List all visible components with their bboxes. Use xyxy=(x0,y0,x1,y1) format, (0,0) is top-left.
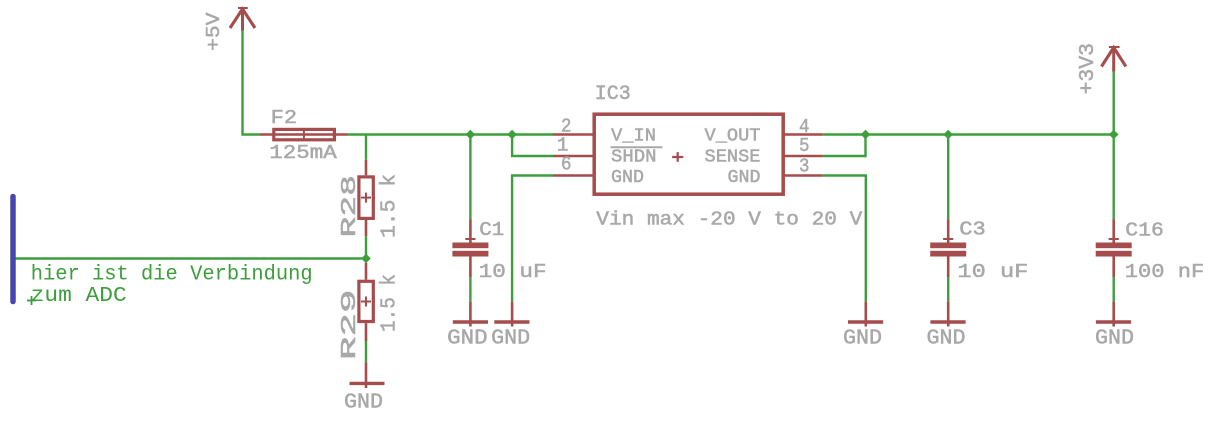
svg-text:SHDN: SHDN xyxy=(611,147,657,168)
wire to pin 1 xyxy=(512,135,553,157)
IC IC3 box xyxy=(594,114,783,194)
wire C1 to GND xyxy=(469,277,471,301)
IC3 origin cross xyxy=(672,152,683,162)
SHDN overline xyxy=(611,146,663,148)
svg-text:F2: F2 xyxy=(271,107,298,129)
svg-text:V_OUT: V_OUT xyxy=(705,126,761,147)
svg-text:GND: GND xyxy=(843,328,882,351)
wire C3 to GND xyxy=(947,277,949,301)
svg-text:hier ist die Verbindung: hier ist die Verbindung xyxy=(31,264,313,287)
svg-text:V_IN: V_IN xyxy=(611,126,656,147)
resistor R29 xyxy=(359,263,373,341)
svg-text:GND: GND xyxy=(491,328,530,351)
junction +3V3/C16 xyxy=(1109,130,1119,140)
capacitor C1 xyxy=(452,219,488,277)
junction pin1/pin6 riser xyxy=(507,130,517,140)
svg-text:+3V3: +3V3 xyxy=(1077,43,1100,95)
pin 2 stub xyxy=(553,133,594,135)
pin 3 stub xyxy=(784,174,823,176)
fuse F2 xyxy=(260,128,348,141)
ground (pin 3) xyxy=(848,302,883,327)
svg-text:GND: GND xyxy=(728,167,761,188)
svg-text:Vin max -20 V to 20 V: Vin max -20 V to 20 V xyxy=(596,209,862,231)
svg-text:10 uF: 10 uF xyxy=(957,261,1028,283)
ground (C16) xyxy=(1096,302,1131,327)
ground (pin 6) xyxy=(494,302,529,327)
wire junction to C3 xyxy=(947,135,949,220)
junction C1 xyxy=(466,130,476,140)
wire pin3 to GND xyxy=(823,176,866,302)
wire junction to C1 xyxy=(469,135,471,220)
wire R28 top tap xyxy=(365,135,367,160)
capacitor C16 xyxy=(1096,219,1132,277)
junction C3 xyxy=(943,130,953,140)
svg-text:5: 5 xyxy=(799,135,810,157)
wire pin4 to +3V3 rail xyxy=(823,133,1114,135)
svg-text:GND: GND xyxy=(447,328,488,351)
wire +5V to fuse xyxy=(243,31,261,135)
svg-text:3: 3 xyxy=(799,156,810,178)
pin 1 stub xyxy=(553,155,594,157)
wire +3V3 to rail xyxy=(1112,72,1114,135)
svg-text:GND: GND xyxy=(927,328,966,351)
svg-text:1.5 k: 1.5 k xyxy=(378,174,401,238)
svg-text:125mA: 125mA xyxy=(269,142,337,164)
svg-text:zum ADC: zum ADC xyxy=(31,285,127,308)
svg-text:GND: GND xyxy=(611,167,644,188)
junction R28/R29 xyxy=(361,254,371,264)
svg-text:C1: C1 xyxy=(479,219,504,241)
note origin cross xyxy=(27,296,36,305)
svg-text:+5V: +5V xyxy=(203,12,225,51)
wire R28 to junction xyxy=(365,236,367,258)
wire R29 to GND xyxy=(365,341,367,362)
pin 4 stub xyxy=(784,133,823,135)
ground (C3) xyxy=(930,302,965,327)
svg-text:100 nF: 100 nF xyxy=(1125,261,1205,283)
svg-text:IC3: IC3 xyxy=(595,83,631,106)
power +3V3 symbol xyxy=(1102,47,1126,72)
capacitor C3 xyxy=(930,219,966,277)
svg-text:6: 6 xyxy=(561,154,572,176)
wire pin 6 to GND xyxy=(512,176,553,302)
wire fuse to IC pin2 xyxy=(348,133,554,135)
wire to ADC xyxy=(15,257,366,259)
ground (C1) xyxy=(453,302,488,327)
resistor R28 xyxy=(359,160,373,236)
wire C16 to GND xyxy=(1112,277,1114,301)
svg-text:1.5 k: 1.5 k xyxy=(378,274,401,332)
svg-text:GND: GND xyxy=(344,392,383,415)
svg-text:C16: C16 xyxy=(1125,220,1164,242)
power +5V symbol xyxy=(230,8,255,31)
svg-text:R28: R28 xyxy=(339,175,362,238)
svg-text:C3: C3 xyxy=(959,219,986,241)
pin 6 stub xyxy=(553,174,594,176)
svg-text:SENSE: SENSE xyxy=(705,147,761,168)
junction pin4/pin5 xyxy=(861,130,871,140)
wire junction to C16 xyxy=(1112,135,1114,220)
pin 5 stub xyxy=(784,155,823,157)
bus stub to ADC xyxy=(10,197,16,302)
wire pin5 riser xyxy=(823,135,866,157)
ground (R29) xyxy=(350,362,385,388)
svg-text:GND: GND xyxy=(1095,328,1134,351)
svg-text:R29: R29 xyxy=(339,290,362,361)
